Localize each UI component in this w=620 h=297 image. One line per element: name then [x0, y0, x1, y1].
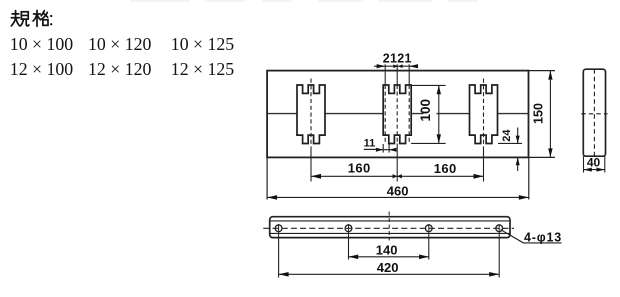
- svg-text:40: 40: [587, 155, 601, 169]
- svg-text:150: 150: [531, 103, 545, 124]
- svg-text:12 × 125: 12 × 125: [171, 59, 234, 79]
- svg-text:4-φ13: 4-φ13: [524, 230, 562, 244]
- svg-text:420: 420: [377, 260, 399, 275]
- svg-text:2121: 2121: [383, 51, 412, 65]
- svg-text:24: 24: [501, 129, 513, 142]
- svg-text:140: 140: [376, 243, 398, 258]
- svg-text:10 × 120: 10 × 120: [88, 34, 151, 54]
- svg-text:160: 160: [434, 161, 457, 176]
- svg-text:12 × 100: 12 × 100: [10, 59, 73, 79]
- svg-text:10 × 100: 10 × 100: [10, 34, 73, 54]
- svg-text:100: 100: [418, 99, 433, 122]
- svg-text:11: 11: [364, 138, 376, 150]
- svg-text:12 × 120: 12 × 120: [88, 59, 151, 79]
- svg-text:10 × 125: 10 × 125: [171, 34, 234, 54]
- svg-text:460: 460: [387, 183, 409, 198]
- svg-text:160: 160: [348, 160, 371, 175]
